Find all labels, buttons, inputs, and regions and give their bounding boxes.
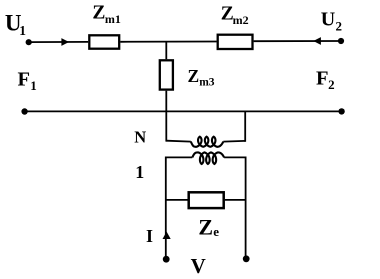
- svg-text:m2: m2: [233, 13, 249, 27]
- svg-text:U: U: [321, 9, 335, 31]
- svg-text:F: F: [18, 69, 31, 91]
- svg-text:V: V: [191, 254, 206, 278]
- svg-text:1: 1: [19, 23, 26, 38]
- svg-text:I: I: [146, 226, 153, 246]
- svg-text:2: 2: [328, 77, 335, 92]
- svg-text:Z: Z: [198, 215, 213, 240]
- svg-text:e: e: [213, 224, 219, 239]
- svg-text:N: N: [134, 128, 146, 147]
- svg-text:m3: m3: [199, 77, 215, 89]
- svg-text:2: 2: [336, 19, 343, 34]
- svg-text:Z: Z: [188, 66, 200, 86]
- svg-text:1: 1: [135, 162, 144, 182]
- svg-text:1: 1: [30, 78, 37, 93]
- svg-text:F: F: [316, 68, 329, 90]
- svg-text:Z: Z: [92, 2, 105, 23]
- svg-text:m1: m1: [105, 12, 121, 26]
